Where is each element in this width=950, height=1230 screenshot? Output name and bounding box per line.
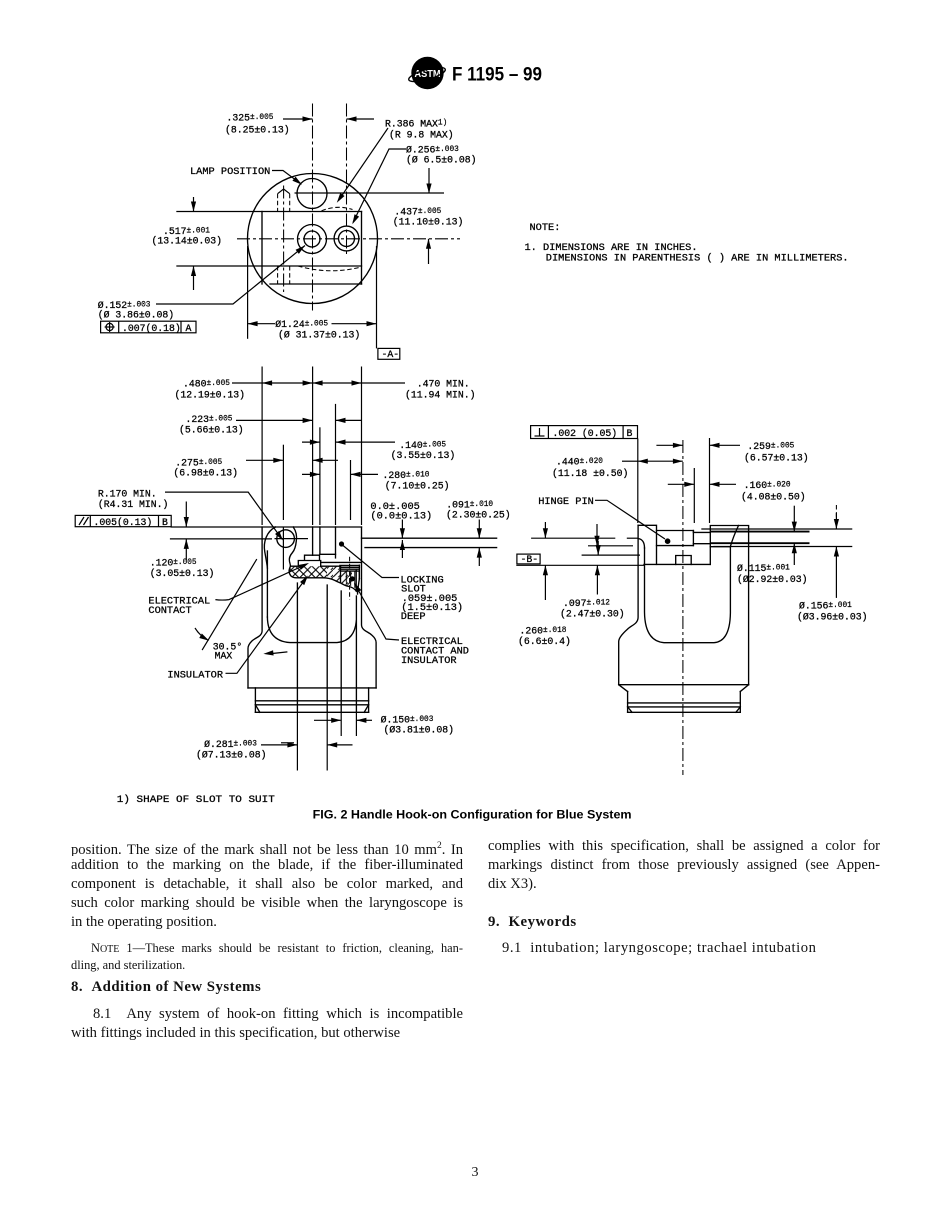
label R.170 with leader	[98, 489, 285, 543]
svg-text:B: B	[162, 517, 168, 528]
slot top line right	[295, 192, 445, 194]
svg-text:(3.55±0.13): (3.55±0.13)	[391, 450, 456, 461]
svg-text:(5.66±0.13): (5.66±0.13)	[179, 425, 244, 436]
left chord	[261, 212, 263, 285]
notch plane line	[582, 554, 640, 556]
cavity bell	[645, 547, 731, 643]
svg-text:(Ø 6.5±0.08): (Ø 6.5±0.08)	[406, 155, 477, 166]
svg-text:Ø.156±.001: Ø.156±.001	[799, 601, 852, 612]
datum B plane line	[516, 564, 644, 566]
insulator hatch right of contact	[341, 566, 357, 591]
dim 0.0	[370, 501, 432, 558]
svg-text:(13.14±0.03): (13.14±0.03)	[152, 236, 223, 247]
horizontal centerline	[237, 238, 460, 240]
svg-text:(2.30±0.25): (2.30±0.25)	[446, 510, 511, 521]
svg-text:.160±.020: .160±.020	[744, 480, 791, 491]
feature control frame position tolerance	[101, 321, 196, 334]
svg-text:.002 (0.05): .002 (0.05)	[553, 428, 618, 439]
dim .260	[518, 522, 571, 647]
center hole inner	[304, 231, 320, 247]
svg-text:Ø.115±.001: Ø.115±.001	[737, 563, 790, 574]
part: ear around hole	[289, 527, 296, 566]
svg-text:INSULATOR: INSULATOR	[401, 655, 457, 667]
extension line shell right	[361, 367, 363, 526]
plate bottom	[644, 563, 710, 565]
bell cavity	[267, 617, 356, 643]
svg-text:.223±.005: .223±.005	[186, 414, 233, 425]
svg-text:(11.10±0.13): (11.10±0.13)	[393, 217, 464, 228]
knurl cap	[255, 688, 368, 712]
svg-text:(R4.31 MIN.): (R4.31 MIN.)	[98, 499, 169, 510]
svg-text:MAX: MAX	[215, 651, 233, 662]
ear hole crosshair	[275, 538, 309, 540]
blade break arc	[730, 526, 738, 547]
part outline	[638, 525, 749, 684]
label R.386 MAX with leader	[335, 119, 454, 205]
dim dia 1.24	[248, 246, 377, 348]
svg-text:F 1195 – 99: F 1195 – 99	[452, 65, 542, 86]
label ELECTRICAL CONTACT with leader	[148, 561, 310, 617]
svg-text:NOTE:: NOTE:	[530, 222, 561, 234]
label dia .256 with leader	[350, 145, 477, 226]
shell left wall and flare	[619, 525, 638, 684]
keyway centerline	[283, 186, 285, 293]
note block	[525, 222, 849, 265]
svg-text:(12.19±0.13): (12.19±0.13)	[175, 390, 246, 401]
keyway tower dashed sides	[277, 194, 279, 212]
view centerline	[682, 440, 684, 775]
part: ear left arc	[264, 527, 275, 568]
extension line center slot left	[312, 367, 314, 526]
extension line pin	[350, 460, 352, 520]
svg-text:CONTACT: CONTACT	[148, 605, 191, 617]
ASTM logo	[407, 57, 446, 89]
svg-text:R.386 MAX1): R.386 MAX1)	[385, 119, 447, 130]
dim dia .281	[196, 739, 353, 761]
svg-text:(4.08±0.50): (4.08±0.50)	[741, 492, 806, 503]
label dia .152 with leader	[98, 243, 307, 320]
center hole outer	[298, 225, 327, 254]
ear hole	[277, 530, 295, 548]
hidden arc bottom	[298, 266, 361, 271]
svg-text:.280±.010: .280±.010	[383, 470, 430, 481]
dim .097	[560, 524, 625, 620]
right chord	[361, 212, 363, 285]
svg-text:DIMENSIONS IN PARENTHESIS ( ): DIMENSIONS IN PARENTHESIS ( ) ARE IN MIL…	[546, 253, 849, 265]
label INSULATOR with leader	[167, 574, 310, 681]
svg-text:LAMP POSITION: LAMP POSITION	[190, 166, 270, 178]
dim .259 row	[656, 441, 808, 464]
keyway hidden mirror	[277, 266, 279, 284]
part: shell left inner wall	[266, 551, 268, 617]
dim .480 / .470 row	[175, 379, 476, 401]
right hole inner	[339, 231, 355, 247]
pin bottom	[657, 545, 694, 547]
vertical centerline	[312, 104, 314, 311]
svg-text:FIG. 2 Handle Hook-on Configur: FIG. 2 Handle Hook-on Configuration for …	[313, 808, 632, 822]
perpendicularity feature frame	[531, 426, 638, 439]
svg-text:(R 9.8 MAX): (R 9.8 MAX)	[389, 130, 454, 141]
pin right end vertical	[692, 531, 694, 546]
extension line ear hole center	[282, 445, 284, 520]
contact hatch band	[291, 565, 341, 567]
dim dia .156	[797, 505, 868, 623]
label LAMP POSITION with leader	[190, 166, 304, 187]
dim .120	[150, 502, 272, 580]
svg-text:.097±.012: .097±.012	[563, 598, 610, 609]
shelf under locking slot	[321, 561, 362, 563]
svg-text:.005(0.13): .005(0.13)	[94, 517, 153, 528]
svg-text:-B-: -B-	[521, 554, 539, 565]
svg-text:.440±.020: .440±.020	[556, 457, 603, 468]
svg-text:.120±.005: .120±.005	[150, 558, 197, 569]
page number	[0, 1165, 950, 1181]
svg-text:1) SHAPE OF SLOT TO SUIT: 1) SHAPE OF SLOT TO SUIT	[117, 794, 275, 806]
svg-text:.007(0.18): .007(0.18)	[122, 323, 181, 334]
datum A box	[378, 348, 400, 360]
dim .275 row	[173, 458, 338, 479]
svg-text:(8.25±0.13): (8.25±0.13)	[225, 125, 290, 136]
skirt bottom	[248, 687, 376, 689]
svg-text:(2.47±0.30): (2.47±0.30)	[560, 609, 625, 620]
insulator block	[298, 555, 320, 566]
datum B box	[517, 554, 540, 565]
svg-text:(Ø 31.37±0.13): (Ø 31.37±0.13)	[278, 330, 360, 341]
svg-text:(3.05±0.13): (3.05±0.13)	[150, 568, 215, 579]
svg-text:(11.94 MIN.): (11.94 MIN.)	[405, 390, 476, 401]
dim dia .150	[314, 715, 454, 736]
svg-text:(Ø3.81±0.08): (Ø3.81±0.08)	[384, 725, 455, 736]
extension line slot left inner	[319, 427, 321, 525]
top flat chord	[177, 211, 362, 213]
electrical contact and insulator leader with dot	[350, 576, 469, 667]
svg-text:(0.0±0.13): (0.0±0.13)	[370, 510, 432, 522]
block left vertical	[709, 532, 711, 564]
svg-text:B: B	[627, 428, 633, 439]
dim .160 row	[668, 480, 806, 503]
locking slot leader with dot	[339, 541, 463, 623]
svg-text:(6.6±0.4): (6.6±0.4)	[518, 636, 571, 647]
svg-text:(6.57±0.13): (6.57±0.13)	[744, 453, 809, 464]
right hole outer	[334, 226, 359, 251]
extension from datum frame / plate edge	[637, 439, 639, 524]
svg-text:.259±.005: .259±.005	[747, 441, 794, 452]
pin center plane line	[531, 537, 615, 539]
extension line shell left	[261, 367, 263, 526]
inner post lines	[296, 583, 298, 712]
dim .437 right	[393, 168, 464, 264]
extension line slot right	[335, 404, 337, 525]
extension lines below	[296, 712, 298, 770]
svg-text:(Ø2.92±0.03): (Ø2.92±0.03)	[737, 574, 808, 585]
left fillet under plate	[638, 539, 644, 549]
svg-text:R.170 MIN.: R.170 MIN.	[98, 489, 157, 500]
svg-text:.480±.005: .480±.005	[183, 379, 230, 390]
neck bottom	[693, 543, 710, 545]
svg-text:A: A	[186, 323, 192, 334]
label HINGE PIN with leader and dot	[538, 496, 670, 544]
extension blade block edge	[709, 438, 711, 523]
dim .325	[225, 113, 374, 136]
slot verticals	[312, 527, 314, 555]
notch on plate bottom	[676, 556, 692, 565]
keyway tower roof	[278, 189, 290, 194]
lower chord	[270, 283, 362, 285]
svg-text:.470 MIN.: .470 MIN.	[417, 379, 470, 390]
pin left end vertical	[656, 531, 658, 565]
hole offset centerline	[346, 104, 348, 255]
lamp circle	[297, 179, 327, 209]
hidden arc top right	[322, 207, 353, 211]
blade plane lines right of part	[362, 537, 497, 539]
laminated contact stack right	[340, 565, 360, 594]
handle outline circle	[248, 174, 378, 304]
svg-text:(11.18 ±0.50): (11.18 ±0.50)	[552, 468, 628, 479]
svg-text:DEEP: DEEP	[401, 611, 426, 623]
block bottom to cavity	[710, 546, 730, 548]
slot floor	[320, 553, 336, 555]
dim dia .115	[737, 506, 808, 585]
svg-text:-A-: -A-	[382, 349, 400, 360]
svg-text:INSULATOR: INSULATOR	[167, 669, 223, 681]
dim .280 row	[302, 470, 449, 492]
svg-text:Ø1.24±.005: Ø1.24±.005	[275, 319, 328, 330]
svg-text:Ø.281±.003: Ø.281±.003	[204, 739, 257, 750]
extension pin end	[693, 468, 695, 523]
part: shell right outer wall	[362, 527, 377, 688]
svg-text:.260±.018: .260±.018	[520, 626, 567, 637]
blade engagement lines	[702, 528, 852, 530]
dim .223 row	[179, 414, 362, 436]
svg-text:HINGE PIN: HINGE PIN	[538, 496, 594, 508]
30.5 deg construction line	[202, 559, 257, 650]
svg-text:(6.98±0.13): (6.98±0.13)	[173, 468, 238, 479]
dim .091	[446, 500, 511, 567]
hidden slot line	[349, 557, 351, 600]
svg-text:.325±.005: .325±.005	[227, 113, 274, 124]
bottom	[619, 684, 749, 686]
line at 547.6	[588, 545, 633, 547]
part: shell left outer wall	[248, 527, 262, 688]
bottom flat chord	[177, 265, 362, 267]
dim .517 left	[152, 197, 223, 290]
svg-text:(Ø 3.86±0.08): (Ø 3.86±0.08)	[98, 310, 174, 321]
30.5 deg arc arrow	[195, 628, 208, 640]
knurl cap right view	[619, 685, 749, 713]
part: plate top line with left extension	[171, 526, 361, 528]
small arrow at shell wall	[271, 652, 287, 654]
dim .140 row	[302, 440, 455, 462]
svg-text:(Ø3.96±0.03): (Ø3.96±0.03)	[797, 612, 868, 623]
svg-text:(Ø7.13±0.08): (Ø7.13±0.08)	[196, 750, 267, 761]
parallelism feature frame	[75, 515, 171, 528]
dim .440 row	[552, 457, 683, 480]
svg-text:(7.10±0.25): (7.10±0.25)	[385, 481, 450, 492]
